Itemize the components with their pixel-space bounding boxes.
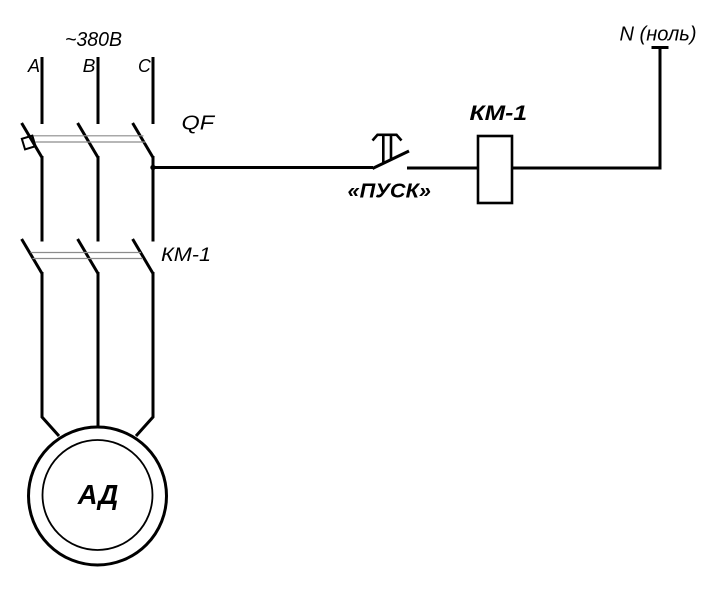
wire phase A top (41, 57, 44, 124)
wire phase C lower (136, 272, 153, 436)
contactor KM-1 pole B blade (78, 239, 98, 274)
svg-text:КМ-1: КМ-1 (470, 102, 528, 125)
wire phase A lower (42, 272, 59, 436)
svg-text:B: B (83, 56, 96, 76)
wire coil to neutral riser (512, 167, 662, 170)
wire phase A middle (41, 156, 44, 242)
wire phase C middle (152, 156, 155, 242)
svg-text:QF: QF (182, 112, 217, 134)
coil KM-1 rectangle (478, 136, 512, 203)
svg-text:N (ноль): N (ноль) (620, 23, 697, 46)
svg-text:C: C (138, 56, 152, 76)
breaker QF pole B blade (78, 123, 98, 158)
wire phase C top (152, 57, 155, 124)
wire phase B lower (97, 272, 100, 428)
wire neutral riser (659, 48, 662, 170)
svg-text:«ПУСК»: «ПУСК» (348, 180, 432, 203)
wire button to coil (407, 167, 478, 170)
neutral terminal tick (652, 46, 669, 49)
wire phase B top (97, 57, 100, 124)
breaker QF pole A blade (22, 123, 42, 158)
contactor KM-1 pole A blade (22, 239, 42, 274)
motor AD inner circle (43, 440, 153, 550)
contactor KM-1 pole C blade (133, 239, 153, 274)
wire phase B middle (97, 156, 100, 242)
breaker QF pole C blade (133, 123, 153, 158)
junction node on phase C (150, 165, 155, 170)
breaker QF mechanical linkage (34, 136, 146, 142)
svg-text:АД: АД (77, 479, 118, 510)
contactor KM-1 mechanical linkage (31, 253, 144, 259)
breaker QF symbol square on pole A (22, 136, 36, 150)
svg-text:A: A (27, 56, 40, 76)
svg-text:~380В: ~380В (65, 29, 122, 51)
motor AD outer circle (29, 427, 167, 565)
push button SB blade (373, 151, 410, 169)
svg-text:КМ-1: КМ-1 (161, 244, 211, 266)
push button SB actuator (373, 135, 402, 164)
wire control from junction to button (153, 166, 373, 169)
